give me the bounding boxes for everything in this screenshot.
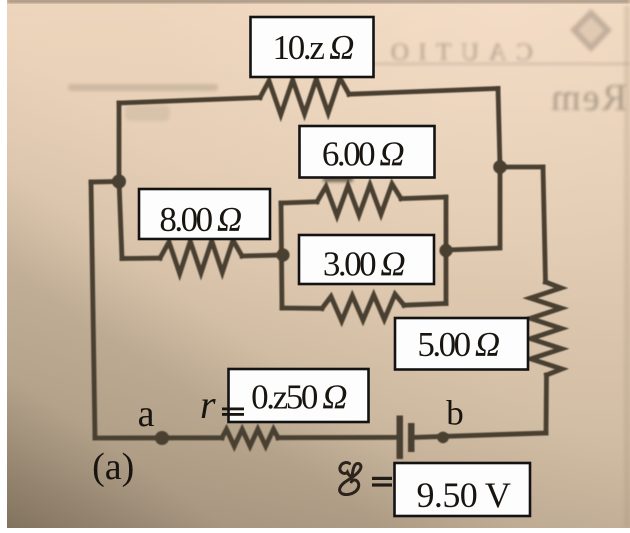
wire from 5 ohm branch top to right junction [500,165,543,170]
wire parallel loop right vertical [444,197,449,304]
label box 6.00 [300,126,435,178]
photo top edge dark band [7,0,630,2]
wire parallel loop left vertical [281,203,282,308]
wire top branch left segment [119,98,260,103]
label box 9.50 [395,463,531,516]
svg-text:3.00 Ω: 3.00 Ω [323,245,406,284]
page left white margin strip [0,0,7,528]
wire right vertical lower segment [544,375,549,433]
bleed-through CAUTIO text (mirrored) [381,39,532,66]
label box 10.z [251,17,374,77]
wire from resistor r to battery [278,435,396,440]
resistor 8.00 ohm (series branch) [160,240,242,273]
label = after script E [372,477,392,487]
node right junction [493,160,507,174]
wire top branch right segment [349,89,498,95]
wire bottom from corner to node a to resistor r [95,435,222,440]
wire top-right vertical [498,89,500,168]
wire outer-left vertical [91,182,95,438]
wire from inner-left vertical to resistor 8 ohm [122,256,160,261]
smudge under 6ohm box [323,176,353,182]
resistor 3.00 ohm (parallel loop bottom) [322,294,404,321]
svg-text:Rem: Rem [549,77,627,119]
svg-text:(a): (a) [92,446,134,488]
resistor 5.00 ohm (right branch, vertical) [530,282,562,375]
wire parallel loop top-right segment [401,197,446,199]
wire right vertical upper segment [543,167,546,282]
svg-text:10.z Ω: 10.z Ω [273,28,355,67]
svg-text:b: b [446,394,464,433]
svg-text:CAUTIO: CAUTIO [381,39,532,66]
label box 5.00 [395,318,528,370]
node parallel left [276,248,289,261]
bleed-through underline [368,63,630,66]
label box 0.z50 [229,369,369,422]
battery short plate (negative) [408,423,415,452]
resistor r 0.z50 ohm (internal resistance) [222,429,278,446]
node left junction [112,175,126,189]
node junction dots [112,160,507,445]
svg-text:a: a [138,393,155,435]
wire from right junction down to parallel-loop right node [446,167,500,250]
bleed-through smudge top-left [68,84,218,91]
wire parallel loop bottom-right segment [404,304,446,306]
wire inner-left vertical [119,103,122,259]
resistor 6.00 ohm (parallel loop top) [317,184,401,216]
label = after r [222,408,244,416]
label box 8.00 [139,189,270,239]
battery long plate (positive) [397,416,404,460]
wire from battery through node b to bottom-right corner [415,433,547,437]
wire parallel loop bottom-left segment [282,306,322,311]
wire stub from left junction [91,179,119,184]
battery EMF cell [397,416,415,460]
wire parallel loop top-left segment [281,202,317,203]
node b dot [437,432,449,444]
bleed-through Re text (mirrored) [549,77,627,119]
node parallel right [439,244,452,257]
svg-text:0.z50 Ω: 0.z50 Ω [251,378,347,417]
bleed-through diamond (top right) [570,9,612,52]
svg-text:5.00 Ω: 5.00 Ω [417,325,500,364]
EMF script E symbol [340,463,361,495]
label box 3.00 [299,235,434,284]
node a dot [155,431,169,445]
right edge shade [624,6,630,528]
svg-text:8.00 Ω: 8.00 Ω [159,200,242,239]
svg-text:6.00 Ω: 6.00 Ω [322,135,405,174]
wire from resistor 8 ohm to parallel-loop left node [242,255,283,256]
svg-text:r: r [200,382,216,427]
resistor 10.z ohm (top branch) [260,78,349,115]
svg-text:9.50 V: 9.50 V [417,475,511,515]
